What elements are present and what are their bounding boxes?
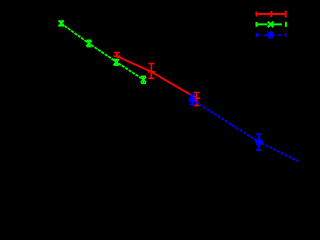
node R1 marker + xyxy=(113,53,120,58)
node G2 errorbar xyxy=(87,40,92,46)
wire blue dashed line B1-B2-clip xyxy=(192,100,298,161)
node G4 errorbar xyxy=(141,76,146,83)
wire green dashed line G1-G2-G3-G4 xyxy=(61,23,143,79)
node G1 marker x xyxy=(58,21,64,27)
wire red line R1-R2-R3 xyxy=(117,56,197,98)
node B1 errorbar xyxy=(189,95,195,105)
node G1 errorbar xyxy=(59,21,64,26)
node G4 marker x xyxy=(141,77,147,83)
node R2 marker + xyxy=(148,68,155,75)
legend green sample xyxy=(257,22,287,28)
node G3 marker x xyxy=(113,59,119,65)
legend key samples xyxy=(257,11,287,39)
legend blue sample xyxy=(257,31,286,39)
series 2 (green, dashed line, x markers, errorbars) xyxy=(58,21,146,84)
series 3 (blue, dashed line, * markers, errorbars) xyxy=(188,95,298,161)
node R1 errorbar xyxy=(114,53,120,58)
node R2 errorbar xyxy=(148,64,154,79)
legend red sample xyxy=(257,11,287,18)
node G3 errorbar xyxy=(114,59,119,65)
node R3 errorbar xyxy=(194,93,200,106)
node G2 marker x xyxy=(86,41,92,47)
node B2 errorbar xyxy=(256,134,262,150)
series 1 (red, solid line, + markers, errorbars) xyxy=(113,53,200,106)
node R3 marker + xyxy=(193,95,200,102)
node B2 marker * xyxy=(255,138,263,146)
node B1 marker * xyxy=(188,96,196,104)
